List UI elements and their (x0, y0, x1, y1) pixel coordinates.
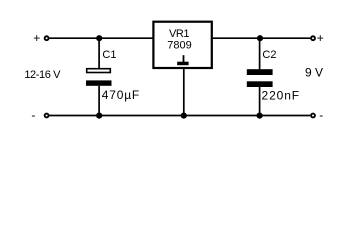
wire C1 bottom lead (98, 86, 100, 116)
svg-text:220nF: 220nF (262, 89, 301, 103)
node C1 top junction (96, 35, 102, 41)
regulator VR1 box (153, 22, 211, 68)
svg-text:470µF: 470µF (102, 88, 140, 102)
wire C2 top lead (259, 38, 261, 69)
svg-text:-: - (319, 108, 323, 122)
svg-text:C2: C2 (262, 49, 276, 61)
svg-text:7809: 7809 (167, 40, 191, 52)
capacitor C1 (electrolytic, positive plate hollow) (86, 69, 112, 86)
wire C1 top lead (98, 38, 100, 68)
node VR1 ground junction (181, 113, 187, 119)
wire C2 bottom lead (259, 87, 261, 116)
wire VR1 ground lead (183, 67, 185, 116)
node C1 bottom junction (96, 113, 102, 119)
svg-text:C1: C1 (102, 49, 116, 61)
ground pin symbol inside VR1 (177, 55, 188, 65)
terminal input negative (45, 114, 49, 118)
svg-text:12-16 V: 12-16 V (24, 69, 61, 81)
terminal output negative (311, 114, 315, 118)
terminal output positive (311, 36, 315, 40)
wire bottom rail (49, 115, 310, 117)
svg-text:VR1: VR1 (169, 28, 189, 40)
wire top rail left (49, 37, 153, 39)
node C2 bottom junction (257, 113, 263, 119)
terminal input positive (45, 36, 49, 40)
svg-text:+: + (33, 31, 40, 45)
svg-text:+: + (317, 31, 324, 45)
svg-text:-: - (31, 108, 35, 122)
capacitor C2 (247, 69, 273, 87)
wire top rail right (212, 37, 310, 39)
node C2 top junction (257, 35, 263, 41)
svg-text:9 V: 9 V (305, 65, 323, 79)
